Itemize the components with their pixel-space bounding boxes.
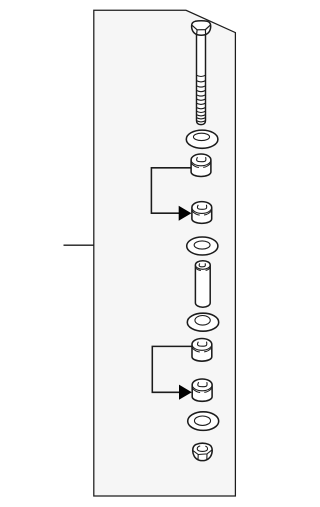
leader line (left callout) (64, 244, 94, 246)
bolt B1 head (192, 21, 211, 35)
washer W4 (188, 412, 219, 431)
spacer sleeve S1 (195, 261, 210, 308)
callout bracket K1 (151, 168, 191, 213)
bolt B1 threads (197, 75, 206, 122)
arrowhead of bracket K2 (179, 385, 192, 400)
hex nut N1 (193, 443, 213, 460)
washer W1 (186, 130, 218, 148)
callout bracket K2 (152, 346, 192, 392)
arrowhead of bracket K1 (179, 206, 192, 221)
bushing U4 (192, 379, 212, 401)
bolt B1 shaft (197, 30, 206, 125)
panel (3D slab with cut top-right corner) (94, 10, 236, 496)
bushing U2 (192, 202, 212, 224)
bushing U3 (192, 339, 212, 362)
washer W2 (187, 237, 218, 255)
bushing U1 (191, 154, 211, 176)
washer W3 (187, 313, 218, 331)
